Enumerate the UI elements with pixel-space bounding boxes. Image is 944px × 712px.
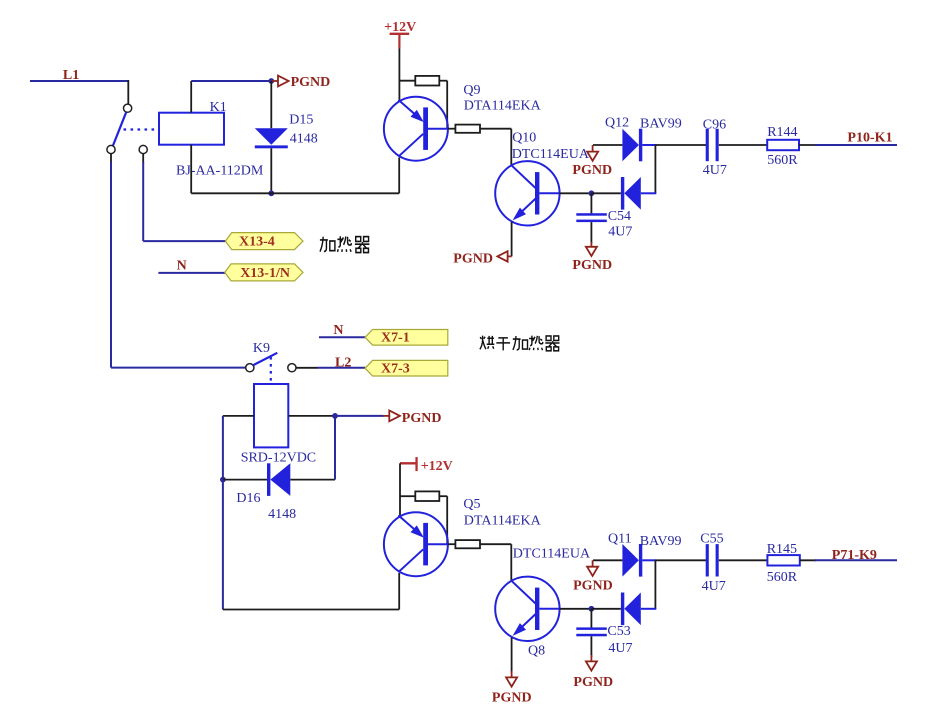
power symbol PGND top [271, 80, 278, 82]
svg-text:4U7: 4U7 [702, 579, 726, 594]
wire Q10 base to junction [560, 192, 592, 194]
transistor Q10 [495, 161, 559, 225]
svg-text:P71-K9: P71-K9 [832, 548, 877, 563]
port X7-3 [365, 360, 448, 376]
svg-text:K9: K9 [253, 341, 270, 356]
svg-text:Q9: Q9 [463, 83, 480, 98]
svg-text:BAV99: BAV99 [640, 117, 682, 132]
wire junction to C54 [590, 193, 592, 213]
svg-text:4U7: 4U7 [608, 641, 632, 656]
svg-text:N: N [177, 259, 187, 274]
wire D15 cathode [270, 148, 272, 193]
wire C54 to ground [590, 222, 592, 243]
wire Q12 lower anode [641, 192, 657, 194]
junction node D16 left [220, 477, 226, 483]
power symbol PGND Q8 [511, 671, 513, 677]
diode Q11 lower (BAV99) [621, 593, 624, 626]
svg-text:Q12: Q12 [605, 116, 629, 131]
diode Q11 upper (BAV99) [622, 544, 639, 577]
switch K1 throw contact right [139, 145, 147, 153]
port X7-1 [365, 330, 448, 346]
junction node C54 [589, 190, 595, 196]
switch K1 lever [113, 112, 126, 146]
svg-text:PGND: PGND [573, 675, 613, 690]
svg-text:N: N [333, 323, 343, 338]
wire +12V stem to Q5 emitter [399, 463, 401, 517]
wire Q12 upper cathode [642, 144, 656, 146]
capacitor C53 [576, 627, 607, 630]
capacitor C55 [706, 544, 709, 576]
svg-text:X7-3: X7-3 [381, 362, 410, 377]
svg-text:BAV99: BAV99 [640, 534, 682, 549]
wire R144 to P10-K1 [799, 144, 816, 146]
relay K1 pin top [190, 81, 192, 113]
wire to PGND K9 [335, 415, 384, 417]
resistor Q9 base series [455, 125, 480, 133]
svg-text:X13-1/N: X13-1/N [240, 266, 290, 281]
wire Q11 anode stub [593, 559, 622, 561]
diode D15 [255, 128, 288, 145]
wire Q11 inter-diode vertical [654, 560, 656, 609]
wire Q9 base lead [428, 128, 448, 130]
wire Q5 base lead [428, 543, 448, 545]
svg-text:C54: C54 [608, 209, 631, 224]
svg-text:Q8: Q8 [528, 644, 545, 659]
resistor R144 [767, 140, 799, 150]
svg-text:K1: K1 [210, 100, 227, 115]
svg-text:X13-4: X13-4 [239, 235, 275, 250]
svg-text:PGND: PGND [572, 258, 612, 273]
svg-text:R144: R144 [767, 125, 797, 140]
wire C55 to R145 [719, 559, 768, 561]
switch K9 throw contact [288, 364, 296, 372]
svg-text:4U7: 4U7 [703, 163, 727, 178]
svg-text:+12V: +12V [421, 459, 453, 474]
diode D16 [267, 463, 270, 496]
junction node C53 [589, 606, 595, 612]
svg-text:C53: C53 [607, 624, 630, 639]
wire from switch right throw down [142, 154, 144, 163]
wire junction to C53 [590, 609, 592, 628]
relay coil K1 [159, 113, 224, 145]
svg-text:BJ-AA-112DM: BJ-AA-112DM [176, 164, 264, 179]
wire L1 corner down to switch K1 [127, 80, 129, 104]
transistor Q9 [384, 97, 448, 161]
svg-text:PGND: PGND [291, 75, 331, 90]
switch K9 lever [253, 353, 277, 366]
capacitor C96 [706, 129, 709, 161]
switch K1 pole contact [124, 104, 132, 112]
svg-text:560R: 560R [767, 570, 798, 585]
junction node relay K9 right [332, 413, 338, 419]
junction node relay/D15 top [268, 78, 274, 84]
wire Q8 base to junction [560, 608, 592, 610]
svg-text:560R: 560R [767, 153, 798, 168]
svg-text:SRD-12VDC: SRD-12VDC [241, 450, 316, 465]
switch K1 linkage dashed [124, 128, 160, 130]
wire C53 to ground [590, 636, 592, 657]
wire D16 loop left lower [222, 480, 224, 610]
wire +12V branch to bias resistor [399, 80, 415, 82]
svg-text:DTC114EUA: DTC114EUA [512, 147, 590, 162]
wire C96 to R144 [719, 144, 767, 146]
wire Q5 collector to rail [398, 573, 400, 610]
wire to switch K9 row [111, 367, 246, 369]
svg-text:DTA114EKA: DTA114EKA [464, 98, 542, 113]
wire Q10 emitter down [511, 222, 513, 256]
junction node D15 bottom [268, 190, 274, 196]
wire Q12 inter-diode vertical [654, 145, 656, 193]
resistor Q5 pull-up [415, 491, 439, 501]
wire Q8 emitter down [511, 638, 513, 673]
wire switch K9 to L2 [296, 367, 318, 369]
wire to port X13-4 [143, 240, 225, 242]
transistor Q8 [495, 577, 559, 641]
svg-text:L2: L2 [335, 355, 351, 370]
wire Q11 lower anode [641, 608, 657, 610]
wire bottom rail K1 circuit [191, 192, 399, 194]
power symbol +12V bottom [400, 462, 416, 464]
wire junction to Q11 lower cathode [591, 608, 621, 610]
wire D16 cathode side [290, 479, 335, 481]
capacitor C54 [576, 213, 607, 216]
wire pull-up resistor to base node [439, 80, 447, 82]
svg-text:DTA114EKA: DTA114EKA [464, 514, 542, 529]
svg-text:D16: D16 [236, 491, 260, 506]
svg-text:C96: C96 [703, 118, 726, 133]
svg-text:4U7: 4U7 [608, 225, 632, 240]
wire D16 anode side [223, 479, 267, 481]
wire R145 to P71-K9 [800, 559, 816, 561]
wire Q9 collector to rail [398, 158, 400, 194]
wire +12V branch to bias resistor [400, 495, 415, 497]
transistor Q5 [384, 512, 448, 576]
diode Q12 upper (BAV99) [622, 129, 639, 162]
relay K1 pin bottom [190, 145, 192, 194]
wire D16 loop right vertical [334, 416, 336, 480]
switch K9 pole contact [246, 364, 254, 372]
svg-text:P10-K1: P10-K1 [847, 130, 892, 145]
wire D16 loop left vertical [222, 416, 224, 480]
svg-text:PGND: PGND [572, 163, 612, 178]
wire junction to Q12 lower cathode [591, 192, 621, 194]
power symbol PGND Q11 [592, 560, 594, 566]
svg-text:Q11: Q11 [608, 532, 632, 547]
svg-text:D15: D15 [289, 113, 313, 128]
wire D15 anode [270, 81, 272, 128]
svg-text:PGND: PGND [453, 251, 493, 266]
wire relay K1 top to PGND tap [191, 80, 271, 82]
wire Q11 upper cathode [642, 559, 656, 561]
switch K9 linkage dashed [270, 357, 272, 384]
svg-text:PGND: PGND [402, 411, 442, 426]
wire L1 horizontal [30, 80, 128, 82]
resistor Q9 pull-up [415, 76, 439, 86]
wire bottom rail K9 circuit [223, 609, 399, 611]
wire base resistor to Q8 collector [480, 543, 511, 545]
svg-text:X7-1: X7-1 [381, 331, 410, 346]
wire from switch left throw down [110, 154, 112, 163]
power symbol PGND C54 [590, 242, 592, 247]
wire base resistor to Q10 collector [480, 128, 511, 130]
power symbol PGND K9 [383, 415, 389, 417]
wire net N to port X13-1/N [158, 272, 225, 274]
svg-text:4148: 4148 [268, 507, 296, 522]
wire +12V stem to Q9 emitter [398, 49, 400, 102]
svg-text:R145: R145 [767, 542, 797, 557]
port X13-4 [225, 233, 303, 250]
wire relay K9 left [223, 415, 254, 417]
svg-text:4148: 4148 [290, 131, 318, 146]
power symbol PGND C53 [590, 655, 592, 661]
svg-text:Q10: Q10 [512, 130, 536, 145]
power symbol PGND Q10 [508, 255, 512, 257]
wire pull-up resistor to base node [439, 495, 447, 497]
svg-text:C55: C55 [700, 532, 723, 547]
diode Q12 lower (BAV99) [621, 177, 624, 210]
svg-text:L1: L1 [63, 68, 79, 83]
wire Q12 anode stub [593, 144, 622, 146]
power symbol PGND Q12 [592, 145, 594, 152]
switch K1 throw contact left [107, 145, 115, 153]
resistor Q5 base series [455, 540, 480, 548]
resistor R145 [767, 555, 799, 565]
svg-text:PGND: PGND [492, 691, 532, 706]
svg-text:DTC114EUA: DTC114EUA [513, 547, 591, 562]
relay coil K9 [254, 384, 288, 447]
svg-text:Q5: Q5 [463, 497, 480, 512]
port X13-1/N [225, 264, 303, 281]
label 加热器 (heater) [320, 236, 369, 252]
svg-text:PGND: PGND [573, 578, 613, 593]
label 烘干加热器 (drying heater) [480, 336, 560, 351]
wire relay K9 right [288, 415, 335, 417]
wire net N to port X7-1 [319, 336, 365, 338]
